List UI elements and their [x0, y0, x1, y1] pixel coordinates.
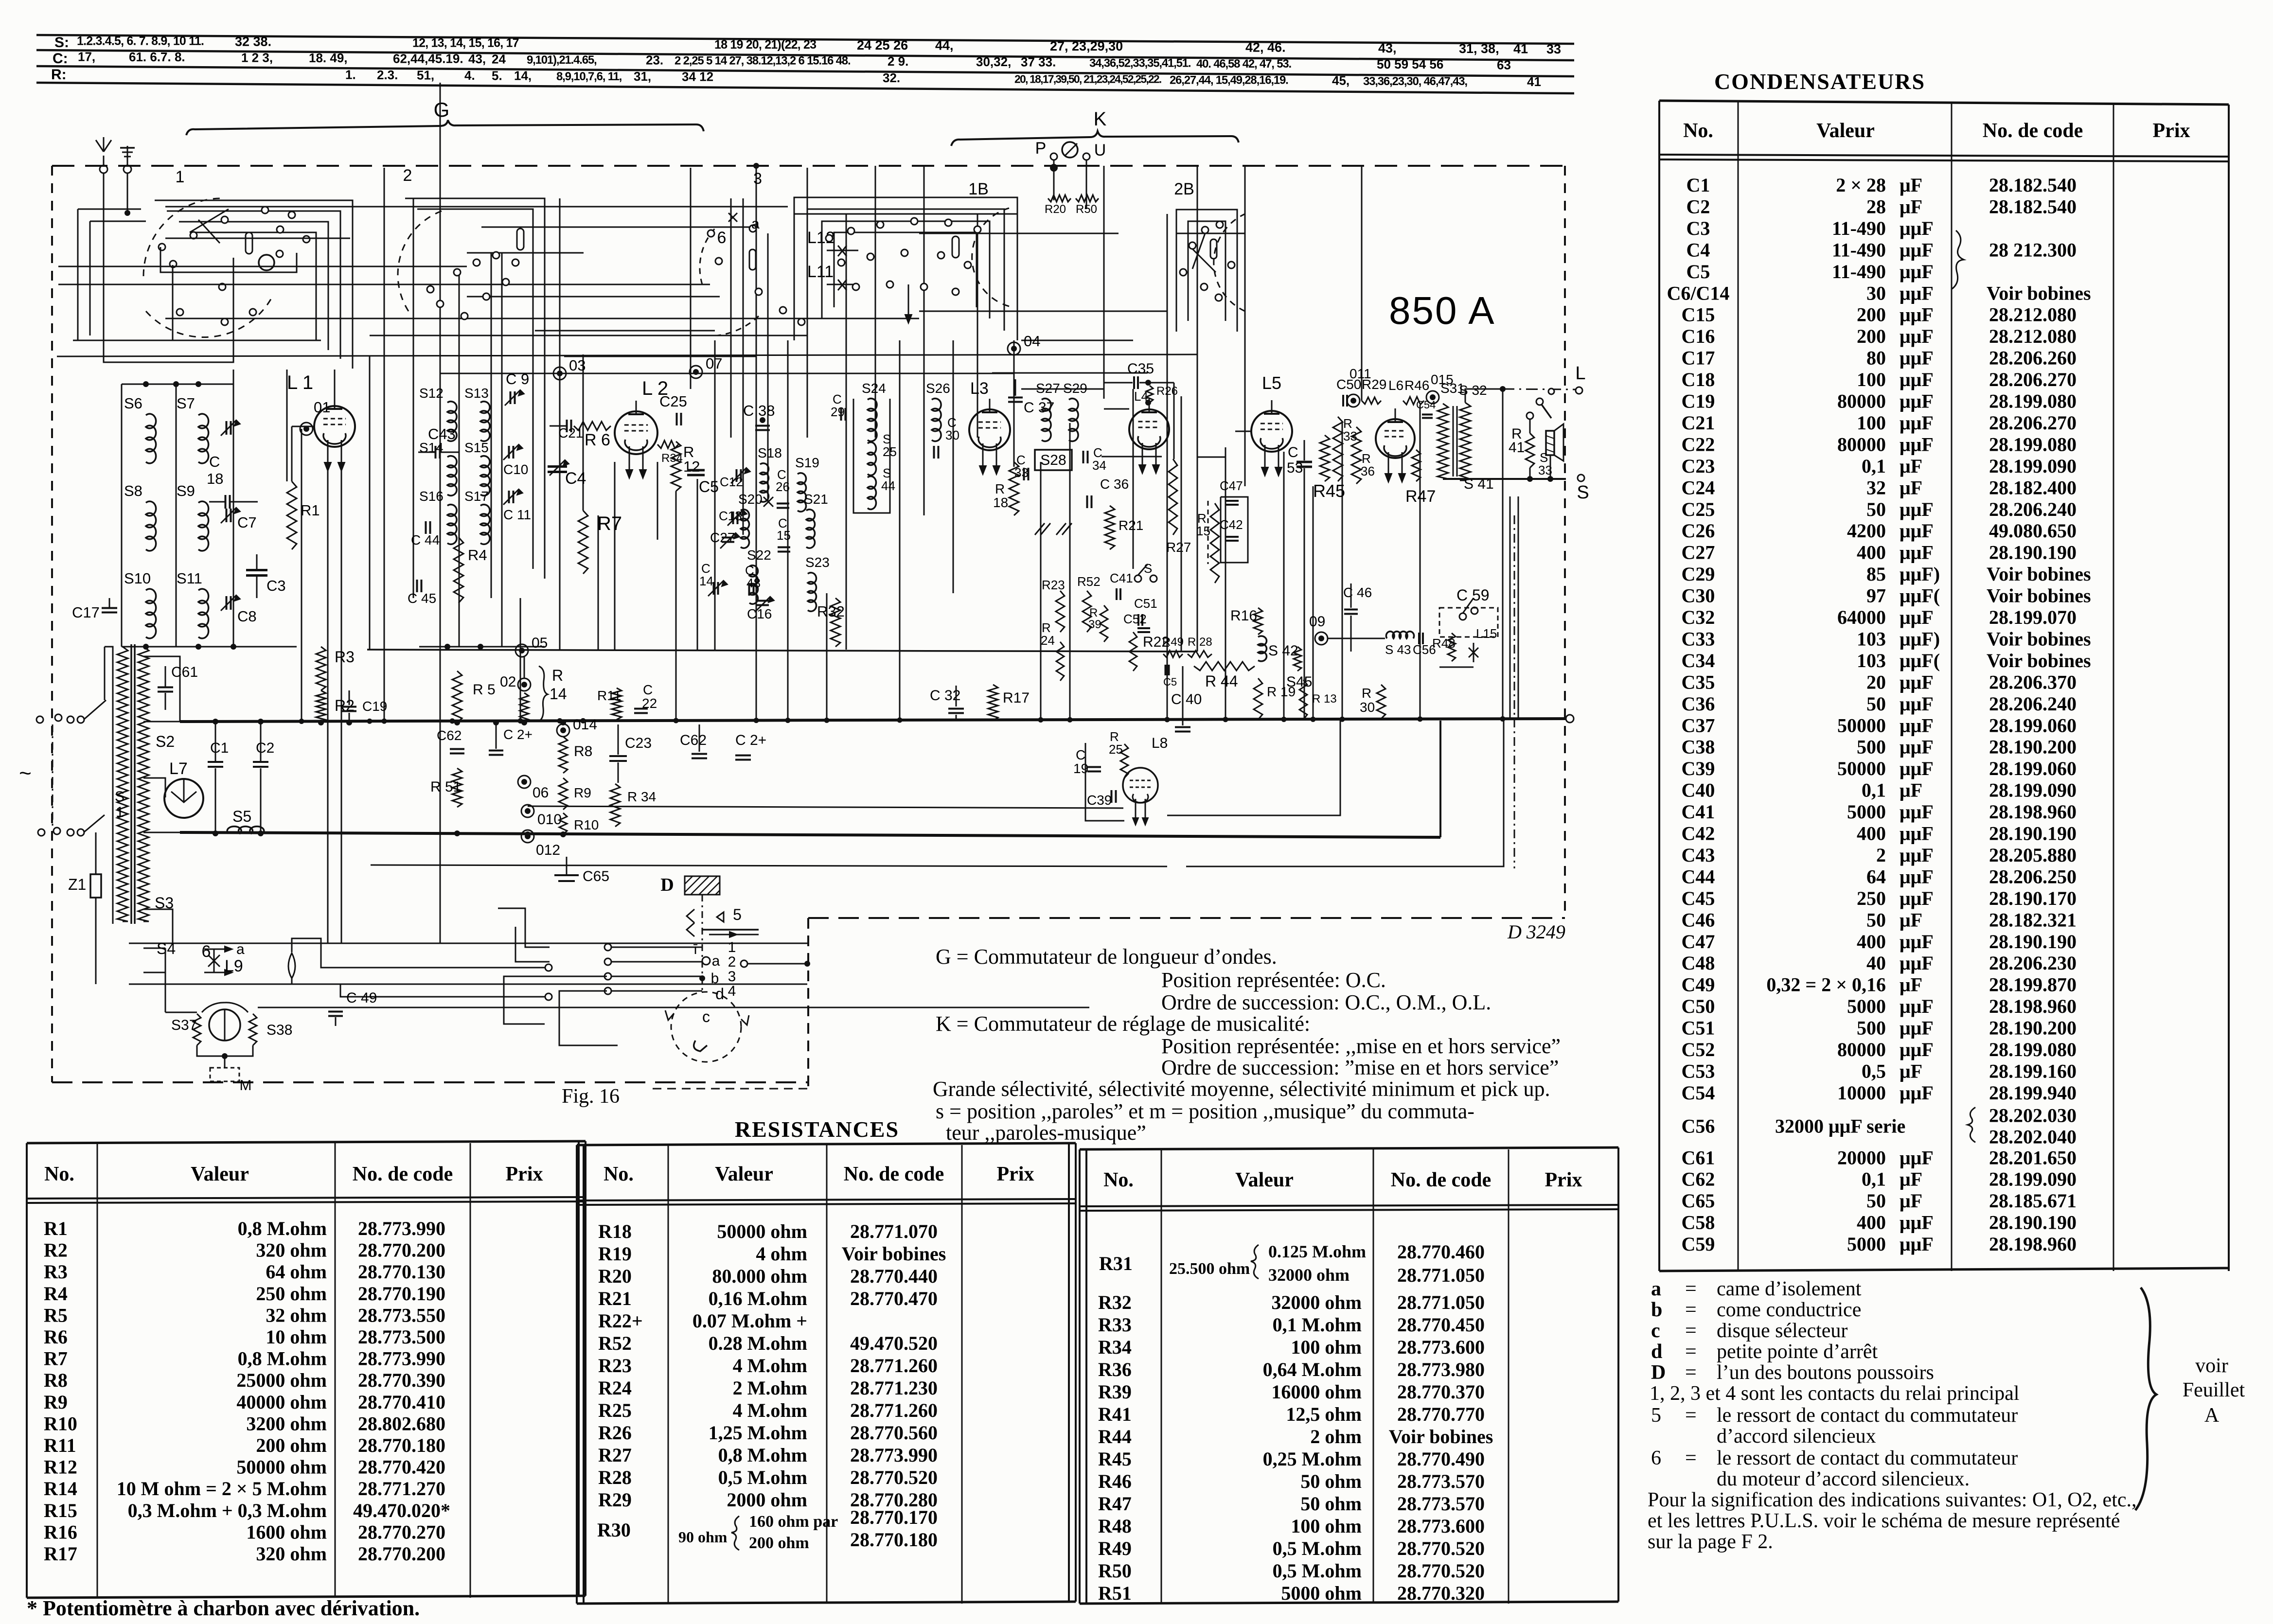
svg-text:37 33.: 37 33.: [1021, 55, 1056, 70]
svg-text:le ressort de contact du: le ressort de contact du commutateur: [1717, 1404, 2018, 1427]
svg-text:44,: 44,: [935, 38, 954, 53]
resistor R7: [578, 511, 588, 574]
svg-text:Voir bobines: Voir bobines: [842, 1243, 946, 1265]
wire dashed bottom pushbutton: [653, 1088, 808, 1090]
svg-text:S17: S17: [464, 489, 489, 504]
wire index rule 3: [36, 66, 1574, 76]
coil S6: [146, 414, 156, 463]
svg-text:20, 18,17,39,50, 21,23,24,52,2: 20, 18,17,39,50, 21,23,24,52,25,22.: [1014, 73, 1161, 86]
wire L8 box: [1085, 743, 1124, 821]
svg-text:12, 13, 14, 15, 16, 17: 12, 13, 14, 15, 16, 17: [412, 36, 519, 50]
wire vertical x1032: [501, 253, 503, 647]
node U terminal: [1083, 153, 1090, 160]
svg-text:μF: μF: [1900, 974, 1922, 996]
svg-text:S26: S26: [926, 381, 950, 396]
svg-text:C65: C65: [1682, 1190, 1715, 1212]
svg-text:31,: 31,: [634, 69, 651, 84]
resistor R2: [316, 690, 326, 723]
wire vertical x1960: [953, 340, 954, 593]
svg-text:R17: R17: [1003, 690, 1030, 706]
wire lamp feeds: [292, 938, 545, 968]
svg-text:200: 200: [1857, 325, 1886, 347]
svg-text:49.080.650: 49.080.650: [1989, 520, 2077, 542]
wire vertical x1503: [730, 198, 732, 438]
svg-text:R8: R8: [574, 743, 592, 759]
wire chassis border bottom right: [808, 917, 1565, 919]
svg-text:C43: C43: [428, 425, 456, 442]
svg-text:34 12: 34 12: [682, 70, 713, 84]
svg-text:1600 ohm: 1600 ohm: [246, 1521, 327, 1543]
svg-text:30: 30: [1866, 282, 1886, 304]
svg-text:sur la page F 2.: sur la page F 2.: [1648, 1531, 1773, 1553]
svg-text:C5: C5: [1687, 261, 1710, 282]
node 2B capsule: [1210, 239, 1217, 259]
svg-text:05: 05: [532, 635, 548, 651]
wire horizontal y585: [58, 284, 710, 285]
svg-text:85: 85: [1866, 563, 1886, 585]
svg-text:28.770.200: 28.770.200: [358, 1543, 445, 1565]
wire vertical x2462: [1197, 166, 1198, 652]
node motor: [209, 1009, 240, 1041]
svg-text:C:: C:: [53, 51, 68, 67]
svg-text:C29: C29: [1682, 563, 1715, 585]
node 2B lever: [1192, 249, 1216, 272]
svg-text:28.770.370: 28.770.370: [1397, 1381, 1485, 1403]
svg-text:28.182.400: 28.182.400: [1989, 477, 2077, 498]
svg-text:32: 32: [1866, 477, 1886, 498]
svg-text:1B: 1B: [968, 180, 989, 198]
svg-text:R49: R49: [1098, 1537, 1132, 1559]
wire horizontal y610: [467, 296, 720, 298]
svg-text:160 ohm par: 160 ohm par: [749, 1513, 838, 1531]
coil S17: [480, 505, 490, 545]
svg-text:R16: R16: [44, 1521, 77, 1543]
svg-text:~: ~: [19, 761, 32, 785]
svg-text:0,5 M.ohm: 0,5 M.ohm: [1273, 1560, 1362, 1582]
svg-text:R46: R46: [1098, 1470, 1132, 1492]
svg-text:C15: C15: [1682, 304, 1715, 326]
svg-text:49.470.520: 49.470.520: [850, 1332, 938, 1354]
wire vertical x1199: [583, 354, 584, 511]
svg-text:C61: C61: [1682, 1147, 1715, 1168]
tube L6: [1376, 419, 1415, 458]
wire vertical x1010: [491, 253, 492, 598]
svg-text:R 6: R 6: [585, 431, 610, 449]
wire U lead: [1086, 160, 1087, 209]
coil S7: [198, 414, 209, 463]
wire earth lead: [127, 173, 128, 213]
svg-text:5.: 5.: [492, 68, 502, 83]
svg-text:K: K: [1094, 108, 1107, 130]
node unit6 capsule: [749, 249, 756, 270]
tube L1: [314, 406, 355, 447]
svg-text:No. de code: No. de code: [1983, 120, 2083, 142]
svg-text:28.771.270: 28.771.270: [358, 1478, 445, 1500]
svg-text:μμF(: μμF(: [1900, 585, 1940, 607]
resistor R22: [1129, 632, 1137, 671]
svg-text:L15: L15: [1476, 626, 1497, 641]
wire secondary top: [1465, 389, 1503, 403]
capacitor C6 trimmer: [226, 421, 228, 435]
svg-text:Voir bobines: Voir bobines: [1987, 563, 2091, 585]
svg-text:voir: voir: [2195, 1355, 2228, 1377]
svg-text:14: 14: [550, 685, 567, 703]
wire mains to transformer: [105, 647, 113, 924]
svg-text:012: 012: [536, 842, 560, 858]
svg-text:200: 200: [1857, 304, 1886, 326]
svg-text:200 ohm: 200 ohm: [749, 1534, 809, 1552]
svg-text:R52: R52: [1077, 574, 1101, 589]
svg-text:33,36,23,30, 46,47,43,: 33,36,23,30, 46,47,43,: [1363, 75, 1467, 88]
svg-text:C16: C16: [1682, 325, 1715, 347]
svg-text:Voir bobines: Voir bobines: [1987, 650, 2091, 671]
svg-text:μF: μF: [1900, 1168, 1922, 1190]
svg-text:=: =: [1685, 1320, 1697, 1342]
svg-text:C2: C2: [256, 740, 274, 756]
wire main B+ bus: [180, 719, 1566, 722]
svg-text:28.770.520: 28.770.520: [850, 1466, 938, 1488]
svg-text:36: 36: [1361, 464, 1375, 478]
wire vertical x2700: [1313, 486, 1314, 719]
node spring 5: [687, 909, 694, 936]
resistor R16: [1254, 608, 1262, 635]
coil S18: [760, 463, 769, 502]
svg-text:L7: L7: [169, 759, 188, 778]
svg-text:μF: μF: [1900, 455, 1922, 477]
node O1: [300, 423, 313, 435]
svg-text:μμF: μμF: [1900, 1147, 1934, 1168]
svg-text:33: 33: [1546, 42, 1561, 56]
svg-text:400: 400: [1857, 1212, 1886, 1234]
resistor R41: [1526, 433, 1534, 468]
svg-text:C5: C5: [1163, 676, 1177, 688]
svg-text:L11: L11: [807, 263, 834, 281]
svg-text:R1: R1: [301, 502, 320, 519]
resistor R30: [1377, 685, 1385, 719]
transformer S41 secondary: [1460, 403, 1471, 480]
svg-text:28.199.060: 28.199.060: [1989, 758, 2077, 779]
svg-text:C45: C45: [1682, 887, 1715, 909]
svg-text:R 5: R 5: [473, 682, 496, 698]
svg-text:4 M.ohm: 4 M.ohm: [733, 1399, 807, 1421]
svg-text:28.770.470: 28.770.470: [850, 1288, 938, 1309]
svg-text:03: 03: [569, 357, 586, 374]
svg-text:28.212.080: 28.212.080: [1989, 304, 2077, 326]
svg-text:R10: R10: [44, 1412, 77, 1434]
svg-text:C41: C41: [1682, 801, 1715, 823]
resistor R14: [520, 693, 529, 723]
svg-text:80000: 80000: [1837, 1039, 1886, 1060]
svg-text:0.125 M.ohm: 0.125 M.ohm: [1268, 1242, 1366, 1261]
wire L4 links: [1104, 408, 1129, 410]
coil S22: [749, 565, 758, 604]
svg-text:0,5 M.ohm: 0,5 M.ohm: [1273, 1537, 1362, 1559]
wire vertical x2200: [1069, 423, 1071, 722]
svg-text:R9: R9: [574, 785, 591, 800]
svg-text:S2: S2: [156, 733, 175, 750]
svg-text:C 38: C 38: [743, 402, 775, 419]
capacitor C7 trimmer: [226, 509, 228, 522]
svg-text:C 59: C 59: [1456, 586, 1490, 604]
svg-text:U: U: [1094, 141, 1106, 159]
resistor R17: [988, 685, 998, 721]
svg-text:320 ohm: 320 ohm: [256, 1543, 327, 1565]
svg-text:R3: R3: [335, 648, 355, 666]
resistor R21: [1105, 506, 1115, 549]
svg-text:C: C: [1076, 747, 1085, 762]
wire D stem: [702, 895, 703, 992]
wire coil bank1 verticals: [121, 384, 123, 647]
svg-text:R45: R45: [1313, 481, 1345, 501]
svg-text:S29: S29: [1063, 381, 1087, 396]
wire horizontal y700: [73, 340, 321, 341]
wire long horizontal AVC: [367, 650, 1197, 652]
wire horizontal y700: [1021, 340, 1133, 341]
resistor R18: [1009, 462, 1019, 515]
svg-text:R50: R50: [1098, 1560, 1132, 1582]
svg-text:μμF: μμF: [1900, 693, 1934, 715]
svg-text:43,: 43,: [468, 52, 486, 66]
svg-text:μμF: μμF: [1900, 671, 1934, 693]
svg-text:50: 50: [1866, 909, 1886, 931]
svg-text:500: 500: [1857, 1017, 1886, 1039]
svg-text:C 2+: C 2+: [503, 727, 533, 742]
svg-text:R: R: [552, 667, 563, 684]
svg-text:S20: S20: [738, 492, 763, 507]
svg-text:0,8 M.ohm: 0,8 M.ohm: [238, 1348, 327, 1370]
capacitor C19: [342, 706, 356, 708]
node O9: [1315, 632, 1328, 645]
svg-text:5: 5: [1651, 1404, 1661, 1427]
node C3-C5 brace: [1952, 230, 1964, 289]
svg-text:0,1 M.ohm: 0,1 M.ohm: [1273, 1314, 1362, 1336]
node a cross: [728, 213, 737, 222]
svg-text:50000: 50000: [1837, 758, 1886, 779]
node M box: [210, 1068, 239, 1081]
svg-text:D: D: [1651, 1361, 1666, 1384]
svg-text:28.770.180: 28.770.180: [850, 1529, 938, 1551]
svg-text:C35: C35: [1682, 671, 1715, 693]
svg-text:Prix: Prix: [2153, 120, 2190, 142]
svg-text:1,25 M.ohm: 1,25 M.ohm: [709, 1422, 807, 1444]
svg-text:28.199.090: 28.199.090: [1989, 455, 2077, 477]
coil S42: [1258, 636, 1267, 661]
svg-text:29: 29: [831, 405, 845, 419]
node speaker switch: [1536, 398, 1543, 405]
svg-text:1, 2, 3 et 4 sont les c: 1, 2, 3 et 4 sont les contacts du relai …: [1650, 1382, 2019, 1405]
svg-text:C2: C2: [1687, 195, 1710, 217]
svg-text:28.190.190: 28.190.190: [1989, 931, 2077, 953]
svg-text:a: a: [1651, 1278, 1661, 1300]
svg-text:C25: C25: [1682, 498, 1715, 520]
svg-text:18: 18: [993, 495, 1008, 510]
svg-text:50: 50: [1866, 693, 1886, 715]
svg-text:25: 25: [1109, 742, 1123, 757]
wire horizontal y520: [467, 252, 584, 254]
svg-text:34,36,52,33,35,41,51.: 34,36,52,33,35,41,51.: [1089, 57, 1191, 70]
svg-text:C 49: C 49: [346, 990, 377, 1006]
wire horizontal y640: [919, 311, 1167, 312]
svg-text:64: 64: [1866, 865, 1886, 887]
svg-text:5000: 5000: [1847, 1233, 1886, 1255]
svg-text:S13: S13: [464, 386, 489, 401]
svg-text:R21: R21: [1119, 518, 1143, 533]
svg-text:C42: C42: [1220, 517, 1243, 532]
svg-text:Feuillet: Feuillet: [2183, 1379, 2245, 1401]
svg-text:07: 07: [706, 355, 722, 372]
resistor R5: [452, 671, 462, 723]
svg-text:Ordre de succession: ”mise en: Ordre de succession: ”mise en et hors se…: [1161, 1056, 1559, 1079]
svg-text:Prix: Prix: [1545, 1169, 1582, 1191]
svg-text:C19: C19: [1682, 390, 1715, 412]
svg-text:28.190.190: 28.190.190: [1989, 823, 2077, 845]
svg-text:28.202.040: 28.202.040: [1989, 1126, 2077, 1147]
svg-text:41: 41: [1509, 440, 1525, 456]
transformer S41 primary: [1438, 404, 1448, 479]
resistor R19: [1254, 678, 1262, 720]
svg-text:C34: C34: [1682, 650, 1715, 671]
wire vertical x620: [301, 429, 302, 722]
svg-text:6: 6: [717, 229, 727, 247]
svg-text:R: R: [1362, 686, 1371, 701]
svg-text:010: 010: [537, 812, 562, 828]
svg-text:S7: S7: [177, 395, 195, 412]
svg-text:R21: R21: [598, 1288, 632, 1309]
svg-text:23.: 23.: [646, 53, 663, 67]
resistor R24: [1056, 642, 1064, 681]
wire vertical x1800: [875, 166, 876, 438]
capacitor C8 trimmer: [226, 596, 228, 610]
svg-text:28.206.270: 28.206.270: [1989, 369, 2077, 390]
node G brace: [186, 120, 704, 135]
svg-text:16000 ohm: 16000 ohm: [1271, 1381, 1362, 1403]
svg-text:S23: S23: [805, 555, 830, 570]
svg-text:R24: R24: [598, 1377, 632, 1399]
svg-text:400: 400: [1857, 542, 1886, 564]
svg-text:C44: C44: [1682, 865, 1715, 887]
wire long horizontal y1779: [371, 865, 1167, 866]
svg-text:28.199.070: 28.199.070: [1989, 606, 2077, 628]
wire horizontal y548: [58, 266, 467, 267]
capacitor C65: [554, 874, 579, 876]
svg-text:C: C: [643, 682, 653, 697]
svg-text:μμF: μμF: [1900, 801, 1934, 823]
coil S45: [1294, 647, 1301, 671]
svg-text:28.206.370: 28.206.370: [1989, 671, 2077, 693]
svg-text:L9: L9: [225, 957, 243, 975]
wire horizontal y767: [992, 372, 1148, 374]
resistor R34b: [657, 441, 678, 448]
svg-text:28.206.240: 28.206.240: [1989, 693, 2077, 715]
svg-text:24 25 26: 24 25 26: [857, 38, 908, 53]
resistor R32: [831, 598, 840, 647]
svg-text:40000 ohm: 40000 ohm: [236, 1391, 327, 1413]
svg-text:3: 3: [728, 969, 736, 985]
svg-text:27, 23,29,30: 27, 23,29,30: [1050, 39, 1123, 53]
transformer S1 secondary: [138, 647, 149, 921]
svg-text:R31: R31: [1099, 1253, 1133, 1274]
wire chassis border top: [52, 165, 1565, 167]
wire horizontal y480: [1176, 233, 1245, 234]
svg-text:28.199.160: 28.199.160: [1989, 1060, 2077, 1082]
svg-text:50 ohm: 50 ohm: [1300, 1493, 1362, 1515]
svg-text:10 ohm: 10 ohm: [266, 1326, 327, 1348]
svg-text:Position représentée: O.C.: Position représentée: O.C.: [1161, 968, 1386, 992]
svg-text:25000 ohm: 25000 ohm: [236, 1369, 327, 1391]
svg-text:39: 39: [1088, 618, 1101, 631]
wire R15 dashes: [1208, 501, 1209, 564]
svg-text:du moteur d’accord silencie: du moteur d’accord silencieux.: [1717, 1468, 1970, 1490]
svg-text:2 × 28: 2 × 28: [1836, 174, 1886, 196]
svg-text:μF: μF: [1900, 1060, 1922, 1082]
svg-text:28.770.440: 28.770.440: [850, 1265, 938, 1287]
svg-text:μμF): μμF): [1900, 628, 1940, 650]
svg-text:c: c: [702, 1008, 710, 1025]
svg-text:28.198.960: 28.198.960: [1989, 801, 2077, 823]
resistor R20: [1048, 195, 1071, 202]
svg-text:28.199.870: 28.199.870: [1989, 974, 2077, 996]
svg-text:S:: S:: [54, 35, 69, 51]
svg-text:50 ohm: 50 ohm: [1300, 1470, 1362, 1492]
wire vertical x2330: [1133, 389, 1134, 569]
svg-text:S: S: [1144, 561, 1152, 576]
node switch 1B capsule: [952, 236, 959, 258]
svg-text:Ordre de succession: O.C.,: Ordre de succession: O.C., O.M., O.L.: [1161, 990, 1491, 1014]
wire vertical x1660: [807, 168, 808, 438]
svg-text:28.770.170: 28.770.170: [850, 1506, 938, 1528]
svg-text:μμF: μμF: [1900, 498, 1934, 520]
wire vertical x2920: [1420, 405, 1421, 719]
svg-text:C: C: [209, 453, 220, 470]
svg-text:μμF: μμF: [1900, 887, 1934, 909]
svg-text:C27: C27: [1682, 542, 1715, 564]
coil S9: [198, 501, 209, 551]
svg-text:et les lettres P.U.L.S. vo: et les lettres P.U.L.S. voir le schéma d…: [1648, 1510, 2120, 1532]
svg-text:C24: C24: [1682, 477, 1715, 498]
wire vertical x2640: [1283, 452, 1285, 719]
svg-text:Voir bobines: Voir bobines: [1389, 1426, 1493, 1447]
svg-text:μμF: μμF: [1900, 1039, 1934, 1060]
svg-text:C61: C61: [171, 664, 198, 680]
svg-text:0,64 M.ohm: 0,64 M.ohm: [1263, 1359, 1362, 1380]
svg-text:28.770.460: 28.770.460: [1397, 1241, 1485, 1263]
svg-text:μμF: μμF: [1900, 1082, 1934, 1104]
svg-text:4200: 4200: [1847, 520, 1886, 542]
wire long horizontal y1658: [528, 806, 1123, 808]
svg-text:6: 6: [202, 942, 211, 961]
svg-text:R30: R30: [597, 1519, 631, 1541]
capacitor C10: [508, 446, 510, 459]
coil S23: [808, 573, 817, 612]
svg-text:320 ohm: 320 ohm: [256, 1239, 327, 1261]
svg-text:S16: S16: [419, 489, 444, 504]
svg-text:Pour la signification des: Pour la signification des indications su…: [1648, 1489, 2137, 1511]
svg-text:C12: C12: [720, 475, 743, 489]
svg-text:S: S: [1577, 482, 1589, 503]
svg-text:μμF: μμF: [1900, 433, 1934, 455]
resistor R51: [452, 768, 462, 807]
svg-text:come conductrice: come conductrice: [1717, 1299, 1861, 1321]
coil S15: [480, 456, 490, 496]
svg-text:2: 2: [728, 954, 736, 970]
svg-text:μμF): μμF): [1900, 563, 1940, 585]
svg-text:L5: L5: [1262, 373, 1281, 393]
svg-text:R26: R26: [598, 1422, 632, 1444]
svg-text:C10: C10: [503, 462, 528, 477]
svg-text:Valeur: Valeur: [1816, 120, 1875, 142]
svg-text:32000 ohm: 32000 ohm: [1268, 1265, 1350, 1285]
svg-text:C54: C54: [1682, 1082, 1715, 1104]
